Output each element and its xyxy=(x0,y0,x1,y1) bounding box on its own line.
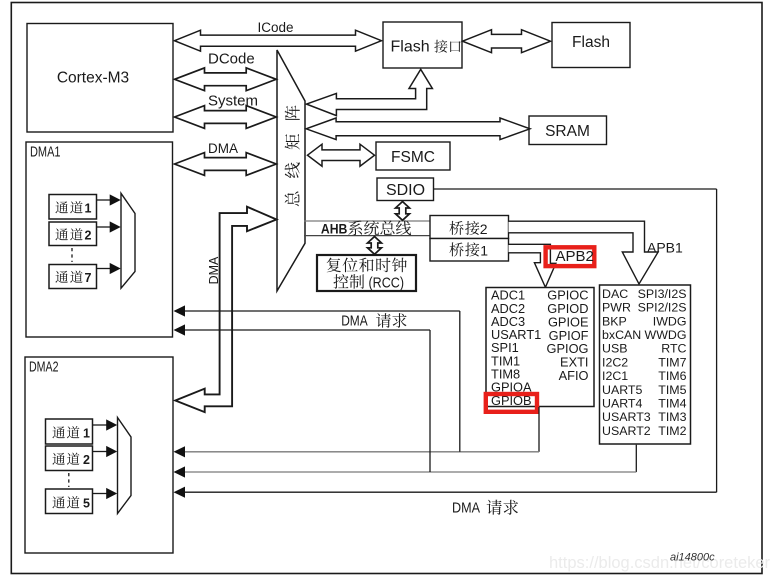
svg-text:DAC: DAC xyxy=(602,287,628,301)
svg-text:DMA: DMA xyxy=(452,500,480,517)
svg-text:2: 2 xyxy=(83,453,90,467)
arrowhead into DMA2 y452 xyxy=(174,446,186,457)
arrowhead into DMA1 y311 xyxy=(174,305,186,316)
svg-text:5: 5 xyxy=(83,497,90,511)
svg-text:TIM7: TIM7 xyxy=(658,355,686,369)
svg-text:USART3: USART3 xyxy=(602,410,651,424)
svg-text:7: 7 xyxy=(85,271,92,285)
svg-text:USART2: USART2 xyxy=(602,424,651,438)
wire branch x430 xyxy=(429,330,431,472)
DMA2 ch2 arrow xyxy=(93,451,108,453)
Flash interface box xyxy=(383,22,462,68)
svg-text:APB1: APB1 xyxy=(647,240,683,256)
arrowhead into DMA1 y330 xyxy=(174,324,186,335)
DMA2 controller box xyxy=(25,357,173,553)
svg-text:I2C2: I2C2 xyxy=(602,355,628,369)
System bus arrow xyxy=(175,106,277,129)
DMA2 mux shape xyxy=(118,418,132,514)
Flash-FlashIF bus arrow xyxy=(463,30,551,53)
svg-text:UART4: UART4 xyxy=(602,397,643,411)
DMA1 channel1 label xyxy=(55,201,82,213)
ICode bus arrow xyxy=(175,30,382,51)
svg-text:PWR: PWR xyxy=(602,301,631,315)
DMA2 channel2 box xyxy=(46,446,93,471)
svg-text:SDIO: SDIO xyxy=(386,182,425,199)
bridge2 box xyxy=(430,216,509,239)
svg-text:BKP: BKP xyxy=(602,314,627,328)
wire APB1box to DMA (vertical) xyxy=(635,445,637,472)
svg-text:USB: USB xyxy=(602,342,627,356)
wire DMA request to DMA1 (y330) xyxy=(184,329,430,331)
svg-text:2: 2 xyxy=(480,221,488,237)
DMA2 channel5 box xyxy=(46,489,93,514)
SDIO box xyxy=(377,178,434,201)
svg-text:Flash: Flash xyxy=(572,34,610,51)
vertical DMA label xyxy=(207,256,221,284)
svg-text:(RCC): (RCC) xyxy=(369,276,405,292)
cpu Cortex-M3 box xyxy=(27,24,173,133)
svg-text:TIM3: TIM3 xyxy=(658,410,686,424)
svg-text:SPI3/I2S: SPI3/I2S xyxy=(638,287,687,301)
DMA1 ch1 arrow xyxy=(97,199,112,201)
svg-text:TIM5: TIM5 xyxy=(658,383,686,397)
svg-text:2: 2 xyxy=(85,229,92,243)
bus matrix vertical label 总线矩阵 xyxy=(285,106,300,207)
bridge1 label xyxy=(449,242,479,256)
DMA1 controller box xyxy=(26,142,173,337)
svg-text:Cortex-M3: Cortex-M3 xyxy=(57,70,129,87)
svg-text:APB2: APB2 xyxy=(556,248,594,265)
wire DMA request to DMA2 (y492) xyxy=(184,491,717,493)
svg-text:DMA1: DMA1 xyxy=(30,144,61,161)
DMA bus arrow DMA1-busmatrix xyxy=(175,153,277,176)
wire DMA request to DMA2 (y452) xyxy=(184,451,539,453)
svg-text:TIM2: TIM2 xyxy=(658,424,686,438)
wire DMA request to DMA2 (y472) xyxy=(184,471,636,473)
svg-text:FSMC: FSMC xyxy=(391,149,435,166)
AHB bus lower line xyxy=(304,235,430,237)
svg-text:ai14800c: ai14800c xyxy=(670,552,715,564)
APB1 bus bent arrow (bridge2 to APB1 peripherals) xyxy=(509,221,659,284)
bus matrix shape xyxy=(277,50,305,291)
AHB-RCC arrow xyxy=(368,237,382,255)
DMA2 channel5 label xyxy=(52,496,79,508)
DMA1 channel2 label xyxy=(55,228,82,240)
svg-text:IWDG: IWDG xyxy=(653,314,687,328)
svg-text:bxCAN: bxCAN xyxy=(602,328,641,342)
red highlight APB2 xyxy=(546,247,595,266)
svg-text:https://blog.csdn.net/coreteke: https://blog.csdn.net/coreteker xyxy=(549,554,771,572)
bus to Flash interface (bent arrow) xyxy=(307,69,433,115)
svg-text:RTC: RTC xyxy=(661,342,686,356)
DMA2 channel1 label xyxy=(52,426,79,438)
DMA2 channel2 label xyxy=(52,453,79,465)
DMA1 mux shape xyxy=(121,193,135,288)
svg-text:1: 1 xyxy=(83,427,90,441)
svg-text:DMA: DMA xyxy=(208,141,238,156)
svg-text:DCode: DCode xyxy=(208,51,255,68)
svg-text:TIM6: TIM6 xyxy=(658,369,686,383)
arrowhead into DMA2 y492 xyxy=(174,487,186,498)
DMA1 dashed link xyxy=(71,248,73,262)
DMA1 channel7 label xyxy=(55,271,82,283)
flash memory box xyxy=(552,23,630,68)
bridge2 label xyxy=(449,221,479,235)
RCC label line1 xyxy=(327,258,407,273)
wire SDIO down xyxy=(716,189,718,492)
APB2 peripherals box xyxy=(486,288,594,407)
svg-text:SRAM: SRAM xyxy=(545,123,590,140)
wire DMA request to DMA1 (y311) xyxy=(184,310,460,312)
DCode bus arrow xyxy=(175,68,277,91)
wire SDIO right xyxy=(434,188,717,190)
svg-text:ICode: ICode xyxy=(258,20,294,35)
svg-text:DMA2: DMA2 xyxy=(29,359,59,376)
RCC label line2 xyxy=(333,274,364,289)
svg-text:System: System xyxy=(208,93,258,110)
wire branch x459.8 xyxy=(459,311,461,452)
SDIO-AHB arrow xyxy=(396,202,410,221)
DMA bent bus arrow DMA2-busmatrix xyxy=(175,207,276,412)
SRAM bus arrow xyxy=(306,118,530,140)
DMA1 ch7 arrow xyxy=(97,268,112,270)
AHB bus upper line xyxy=(304,220,430,222)
DMA1 ch2 arrow xyxy=(97,226,112,228)
bridge1 box xyxy=(430,239,509,262)
DMA1 channel2 box xyxy=(49,222,97,246)
arrowhead into DMA2 y472 xyxy=(174,466,186,477)
svg-text:TIM4: TIM4 xyxy=(658,397,686,411)
APB2 bus bent arrow (bridge1 to APB2 peripherals) xyxy=(509,244,556,287)
FSMC box xyxy=(376,142,450,170)
DMA2 ch5 arrow xyxy=(93,493,108,495)
wire APB2box to DMA (vertical) xyxy=(538,407,540,452)
svg-text:DMA: DMA xyxy=(341,313,368,330)
DMA2 channel1 box xyxy=(46,419,93,444)
DMA2 dashed link xyxy=(68,473,70,487)
SRAM box xyxy=(529,116,607,145)
RCC box xyxy=(317,255,416,291)
FSMC bus arrow xyxy=(308,144,375,166)
svg-text:AHB: AHB xyxy=(321,220,348,236)
svg-text:I2C1: I2C1 xyxy=(602,369,628,383)
svg-text:1: 1 xyxy=(480,243,488,259)
svg-text:1: 1 xyxy=(85,202,92,216)
APB1 peripherals box xyxy=(600,285,691,444)
svg-text:AFIO: AFIO xyxy=(559,368,589,383)
red highlight GPIOB xyxy=(486,394,537,412)
svg-text:UART5: UART5 xyxy=(602,383,643,397)
svg-text:DMA: DMA xyxy=(207,256,221,284)
DMA2 ch1 arrow xyxy=(93,424,108,426)
DMA1 channel1 box xyxy=(49,195,97,220)
svg-text:SPI2/I2S: SPI2/I2S xyxy=(638,301,687,315)
DMA1 channel7 box xyxy=(49,265,97,289)
svg-text:Flash: Flash xyxy=(391,38,430,55)
svg-text:WWDG: WWDG xyxy=(645,328,687,342)
